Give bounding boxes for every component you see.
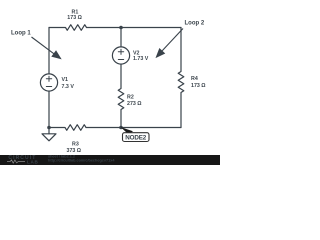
svg-text:7.3 V: 7.3 V — [62, 84, 75, 90]
svg-text:V1: V1 — [62, 77, 69, 83]
svg-text:NODE2: NODE2 — [125, 135, 147, 142]
svg-text:273 Ω: 273 Ω — [127, 101, 142, 107]
svg-text:1.73 V: 1.73 V — [133, 56, 149, 62]
svg-text:Loop 1: Loop 1 — [11, 31, 31, 37]
svg-text:173 Ω: 173 Ω — [191, 83, 206, 89]
svg-text:373 Ω: 373 Ω — [67, 148, 82, 154]
svg-text:http://circuitlab.com/c/becheg: http://circuitlab.com/c/bechegcv71x4 — [48, 159, 115, 163]
svg-text:LAB: LAB — [27, 160, 39, 165]
svg-text:173 Ω: 173 Ω — [67, 15, 82, 21]
svg-text:R2: R2 — [127, 95, 134, 101]
svg-text:R3: R3 — [72, 142, 79, 148]
svg-text:R4: R4 — [191, 76, 198, 82]
svg-text:Loop 2: Loop 2 — [185, 20, 205, 26]
